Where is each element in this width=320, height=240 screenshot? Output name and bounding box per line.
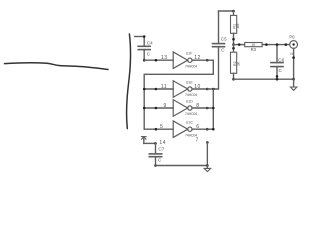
- svg-text:U1E: U1E: [186, 80, 194, 84]
- node dot output bus at U1E row: [212, 88, 215, 91]
- svg-text:P0: P0: [289, 34, 295, 39]
- node dot C4 bottom pin: [143, 59, 146, 62]
- ground symbol right: [290, 79, 296, 90]
- node dot C6 bottom pin end: [276, 75, 279, 78]
- wire U1C output to bus bottom: [207, 128, 213, 130]
- wire top net C5 to R1: [219, 10, 234, 12]
- svg-text:74HC04: 74HC04: [185, 93, 197, 97]
- node dot P0 bottom pin end: [292, 56, 295, 59]
- node dot pin7 end: [206, 141, 209, 144]
- inverter U1E triangle: [173, 81, 192, 98]
- wire U1E input: [144, 88, 173, 90]
- svg-text:C6: C6: [278, 57, 284, 62]
- svg-text:74HC04: 74HC04: [185, 112, 197, 116]
- node dot rail at U1D row: [143, 107, 146, 110]
- svg-text:14: 14: [159, 140, 165, 146]
- inverter U1F triangle: [173, 52, 192, 68]
- node dot bus at U1D row: [212, 107, 215, 110]
- freehand horizontal pen stroke: [5, 63, 109, 70]
- node dot U1D pin8 end: [206, 107, 209, 110]
- wire VCC to pin 14: [144, 142, 156, 144]
- svg-text:13: 13: [161, 55, 168, 61]
- node dot U1C pin5 end: [155, 128, 158, 131]
- svg-text:9: 9: [164, 103, 167, 109]
- wire U1F output feedback loop: [144, 60, 213, 129]
- wire U1D input: [144, 107, 173, 109]
- node dot U1F pin12 end: [206, 59, 209, 62]
- node dot U1E pin11 end: [155, 88, 158, 91]
- capacitor C6: [271, 45, 283, 80]
- node dot R2 bottom pin end: [232, 78, 235, 81]
- node dot R2 top pin end: [232, 47, 235, 50]
- wire U1C output pin: [192, 128, 207, 130]
- node dot C6 at rail: [276, 78, 279, 81]
- wire pin7 to ground rail: [206, 142, 208, 165]
- connector P0: [290, 41, 298, 49]
- node dot C4 top pin: [143, 35, 146, 38]
- wire U1F input: [144, 59, 173, 61]
- freehand vertical pen stroke: [127, 34, 131, 129]
- node dot pin14 end: [154, 142, 157, 145]
- svg-text:C5: C5: [221, 36, 227, 41]
- svg-text:1K: 1K: [236, 61, 240, 66]
- node dot rail at U1E row: [143, 88, 146, 91]
- power VCC symbol: [142, 137, 147, 144]
- svg-text:5: 5: [160, 124, 163, 130]
- node dot U1F pin13 end: [155, 59, 158, 62]
- wire P0 shield pin down: [293, 48, 295, 79]
- svg-text:C7: C7: [158, 147, 164, 152]
- svg-text:7: 7: [196, 138, 199, 144]
- wire U1D output pin: [192, 107, 207, 109]
- wire output bus vertical: [212, 89, 214, 129]
- svg-text:C4: C4: [147, 40, 153, 45]
- capacitor C5: [213, 11, 225, 47]
- node dot junction R1 R2 R3: [232, 43, 235, 46]
- wire ground rail left: [156, 165, 208, 167]
- node dot U1D pin9 end: [155, 107, 158, 110]
- node dot P0 left pin end: [285, 43, 288, 46]
- node dot R1 top pin end: [232, 10, 235, 13]
- wire U1D output to bus: [207, 107, 213, 109]
- wire ground rail right: [234, 78, 294, 80]
- svg-text:U1F: U1F: [186, 52, 194, 56]
- wire junction to R3: [234, 44, 245, 46]
- node dot rail pin7: [206, 164, 209, 167]
- resistor R2: [231, 45, 237, 80]
- capacitor C4: [138, 37, 150, 61]
- svg-text:U1D: U1D: [186, 99, 194, 103]
- wire R3 to P0: [262, 44, 290, 46]
- node dot U1E pin10 end: [206, 88, 209, 91]
- resistor R1: [231, 11, 237, 45]
- node dot C7 bottom: [154, 164, 157, 167]
- inverter U1C triangle: [173, 121, 192, 138]
- svg-text:U1C: U1C: [186, 121, 194, 125]
- svg-text:R3: R3: [251, 47, 257, 52]
- svg-text:74HC04: 74HC04: [185, 64, 197, 68]
- node dot C6 top at R3 net: [276, 43, 279, 46]
- node dot bus bottom at U1C row: [212, 128, 215, 131]
- inverter U1D triangle: [173, 100, 192, 117]
- wire U1E output to C5 bottom lead: [207, 47, 218, 89]
- resistor R3: [245, 43, 262, 47]
- svg-text:11: 11: [161, 84, 167, 90]
- node dot P0 pin at rail: [292, 78, 295, 81]
- node dot R3 left pin end: [238, 43, 241, 46]
- node dot U1C pin6 end: [206, 128, 209, 131]
- ground symbol left: [204, 166, 210, 172]
- wire U1F output pin: [192, 59, 207, 61]
- node dot R3 right pin end: [265, 43, 268, 46]
- node dot R1 bottom pin end: [232, 38, 235, 41]
- wire U1C input: [144, 128, 173, 130]
- capacitor C7: [149, 143, 161, 165]
- svg-text:1M: 1M: [236, 24, 240, 29]
- wire crystal stub to C4 top: [135, 36, 145, 38]
- wire U1E output pin: [192, 88, 207, 90]
